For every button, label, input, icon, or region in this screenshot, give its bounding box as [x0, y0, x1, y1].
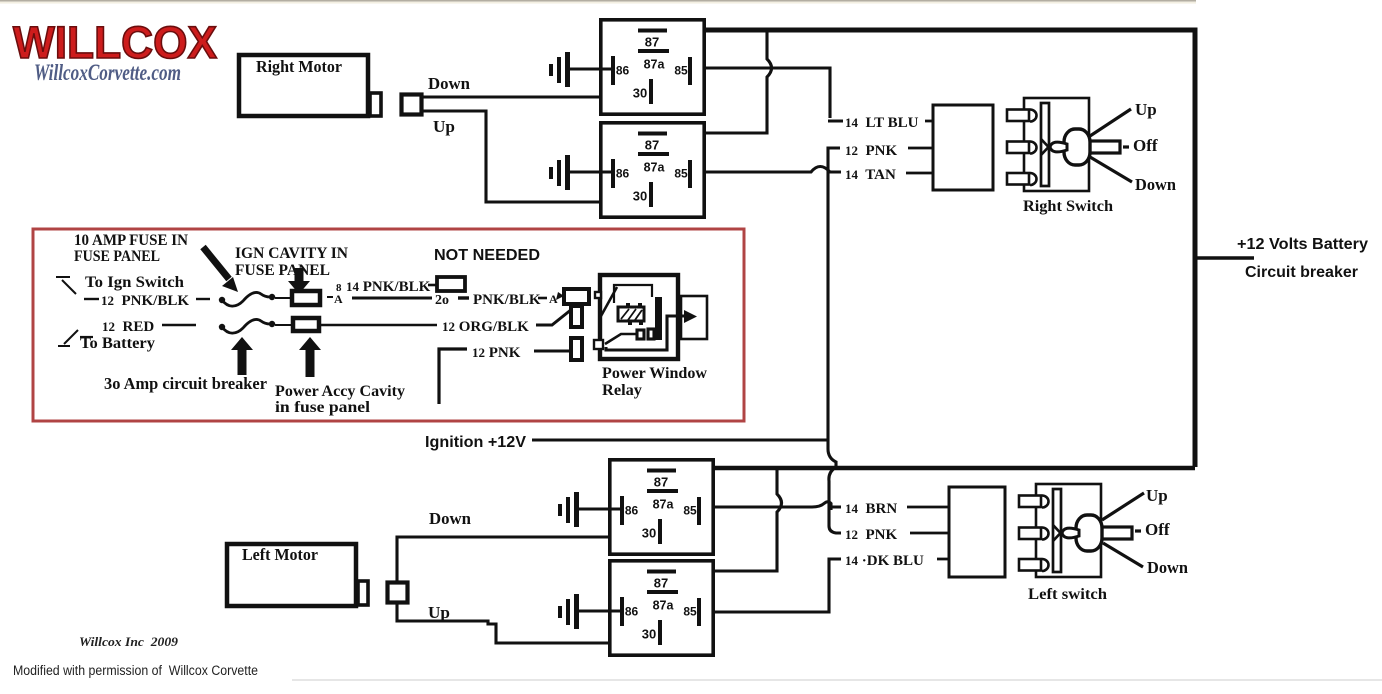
svg-text:Modified with permission of W: Modified with permission of Willcox Corv… [13, 663, 258, 678]
svg-text:Left switch: Left switch [1028, 586, 1107, 603]
svg-text:NOT NEEDED: NOT NEEDED [434, 247, 540, 264]
svg-text:To Ign Switch: To Ign Switch [85, 274, 184, 291]
svg-text:2o: 2o [435, 293, 449, 308]
svg-text:Down: Down [428, 74, 471, 93]
svg-text:10 AMP FUSE IN: 10 AMP FUSE IN [74, 232, 188, 249]
svg-text:Power Window: Power Window [602, 365, 707, 382]
svg-text:12 PNK/BLK: 12 PNK/BLK [101, 293, 189, 309]
svg-text:Up: Up [1146, 486, 1168, 505]
svg-text:Up: Up [428, 603, 450, 622]
svg-text:IGN CAVITY IN: IGN CAVITY IN [235, 245, 348, 262]
svg-text:WillcoxCorvette.com: WillcoxCorvette.com [34, 60, 181, 85]
svg-text:FUSE PANEL: FUSE PANEL [235, 262, 330, 279]
svg-text:in fuse panel: in fuse panel [275, 399, 371, 416]
svg-text:Power Accy Cavity: Power Accy Cavity [275, 383, 405, 400]
svg-text:12 PNK: 12 PNK [845, 143, 897, 159]
svg-text:Up: Up [433, 117, 455, 136]
svg-text:+12 Volts Battery: +12 Volts Battery [1237, 236, 1368, 253]
svg-text:PNK/BLK: PNK/BLK [473, 292, 541, 308]
svg-text:14 LT BLU: 14 LT BLU [845, 115, 919, 131]
svg-text:14 BRN: 14 BRN [845, 501, 897, 517]
svg-text:Relay: Relay [602, 382, 642, 399]
svg-text:Right Motor: Right Motor [256, 57, 342, 76]
svg-text:14 TAN: 14 TAN [845, 167, 896, 183]
svg-text:14 ·DK BLU: 14 ·DK BLU [845, 553, 924, 569]
svg-text:Off: Off [1145, 520, 1170, 539]
svg-text:Left Motor: Left Motor [242, 545, 318, 564]
svg-text:12 PNK: 12 PNK [845, 527, 897, 543]
svg-text:Down: Down [429, 509, 472, 528]
svg-text:Circuit breaker: Circuit breaker [1245, 264, 1358, 281]
svg-text:Right Switch: Right Switch [1023, 198, 1113, 215]
svg-text:3o Amp circuit breaker: 3o Amp circuit breaker [104, 374, 267, 393]
svg-text:Off: Off [1133, 136, 1158, 155]
svg-text:Up: Up [1135, 100, 1157, 119]
svg-text:12 PNK: 12 PNK [472, 345, 521, 361]
svg-text:FUSE PANEL: FUSE PANEL [74, 248, 160, 265]
svg-text:A: A [334, 292, 343, 306]
svg-text:14 PNK/BLK: 14 PNK/BLK [346, 279, 431, 295]
svg-text:12 RED: 12 RED [102, 319, 154, 335]
svg-text:Willcox Inc 2009: Willcox Inc 2009 [79, 634, 179, 649]
svg-text:Down: Down [1147, 558, 1189, 577]
svg-text:Ignition +12V: Ignition +12V [425, 434, 526, 451]
svg-text:Down: Down [1135, 175, 1177, 194]
svg-text:12 ORG/BLK: 12 ORG/BLK [442, 319, 529, 335]
